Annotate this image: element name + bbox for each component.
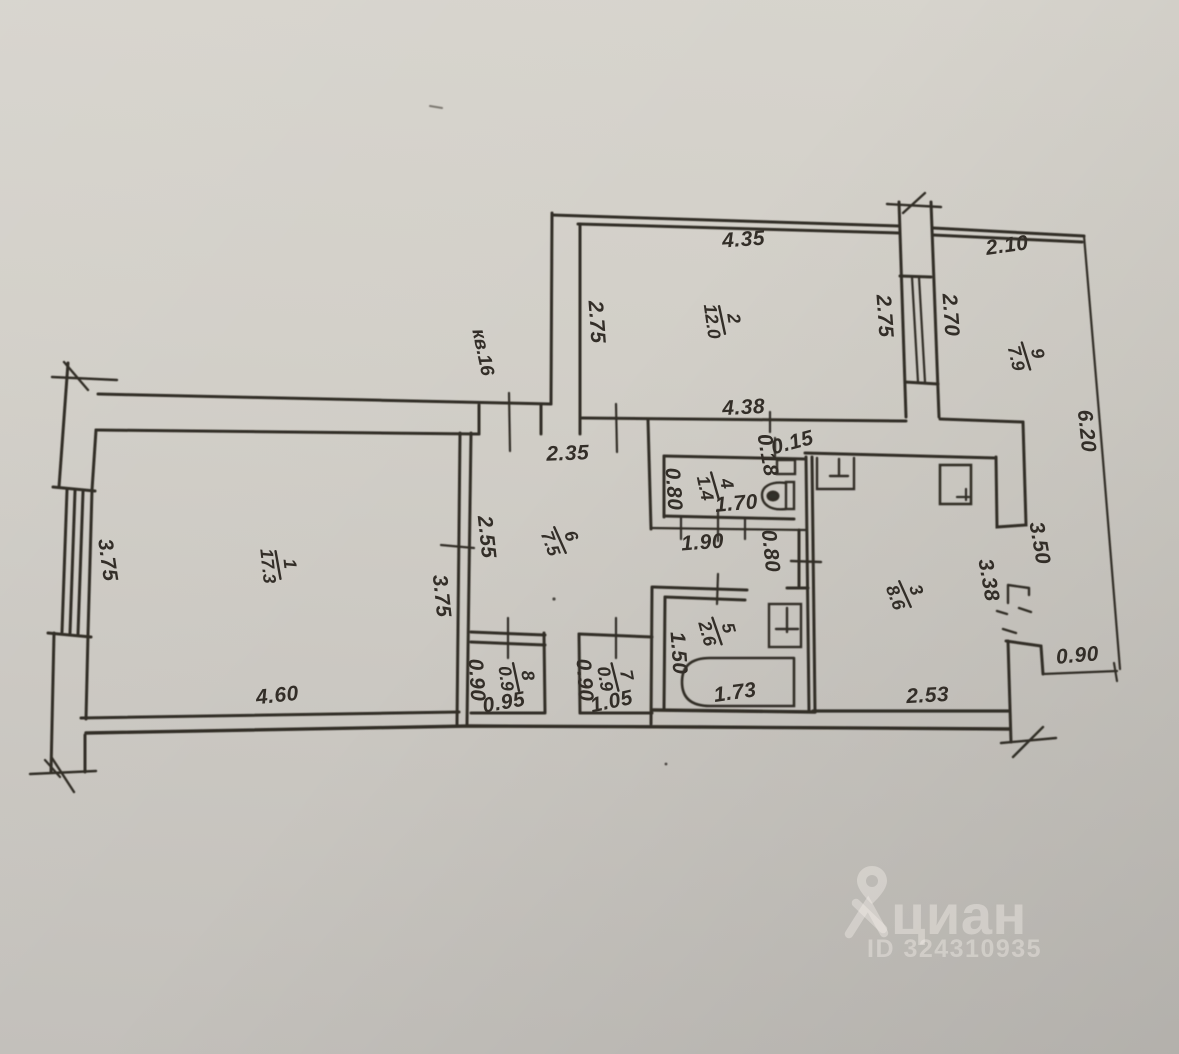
svg-text:2.10: 2.10 <box>983 231 1030 260</box>
svg-text:2.35: 2.35 <box>545 441 590 466</box>
svg-text:4.38: 4.38 <box>721 395 766 420</box>
svg-text:4.60: 4.60 <box>254 682 300 709</box>
svg-text:0.9: 0.9 <box>494 665 517 693</box>
svg-text:2.70: 2.70 <box>937 292 963 337</box>
svg-text:7.9: 7.9 <box>1004 344 1029 373</box>
svg-text:7: 7 <box>616 668 638 682</box>
svg-text:4.35: 4.35 <box>720 227 765 253</box>
svg-text:0.80: 0.80 <box>757 529 784 574</box>
svg-text:2.75: 2.75 <box>871 293 897 338</box>
svg-text:1.70: 1.70 <box>714 490 759 517</box>
svg-text:7.5: 7.5 <box>537 528 565 559</box>
svg-text:3: 3 <box>905 582 927 598</box>
svg-text:4: 4 <box>716 476 738 491</box>
svg-text:17.3: 17.3 <box>256 548 280 585</box>
svg-text:1.4: 1.4 <box>693 474 718 503</box>
svg-text:8: 8 <box>517 669 538 682</box>
svg-text:2: 2 <box>723 311 744 325</box>
svg-text:6.20: 6.20 <box>1073 409 1100 454</box>
svg-text:1.50: 1.50 <box>666 631 692 675</box>
svg-text:2.53: 2.53 <box>905 683 950 708</box>
svg-text:0.90: 0.90 <box>464 658 490 702</box>
svg-text:2.75: 2.75 <box>583 299 609 344</box>
svg-text:3.75: 3.75 <box>428 574 455 619</box>
svg-text:2.55: 2.55 <box>473 514 500 560</box>
svg-text:1: 1 <box>279 558 300 570</box>
svg-text:0.90: 0.90 <box>1055 642 1100 669</box>
svg-text:12.0: 12.0 <box>700 303 725 340</box>
svg-text:8.6: 8.6 <box>882 582 910 613</box>
svg-text:9: 9 <box>1027 346 1049 360</box>
svg-text:6: 6 <box>560 528 583 545</box>
svg-text:ID 324310935: ID 324310935 <box>867 935 1042 963</box>
svg-text:кв.16: кв.16 <box>467 327 498 378</box>
svg-text:5: 5 <box>718 620 740 636</box>
svg-text:2.6: 2.6 <box>694 618 720 649</box>
svg-text:1.73: 1.73 <box>712 678 758 707</box>
svg-text:0.80: 0.80 <box>661 467 687 511</box>
svg-text:0.9: 0.9 <box>593 665 617 693</box>
svg-text:1.90: 1.90 <box>680 530 724 556</box>
svg-text:3.50: 3.50 <box>1024 520 1054 566</box>
svg-text:0.90: 0.90 <box>572 658 598 702</box>
svg-text:3.38: 3.38 <box>973 557 1003 603</box>
svg-text:3.75: 3.75 <box>93 537 122 583</box>
